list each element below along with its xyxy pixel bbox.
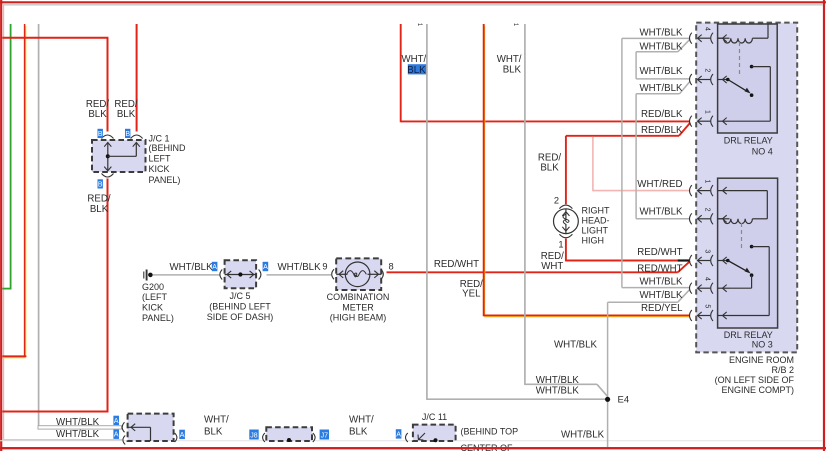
right headlight high lamp — [559, 205, 572, 209]
svg-text:PANEL): PANEL) — [142, 313, 174, 323]
svg-text:WHT/BLK: WHT/BLK — [56, 429, 100, 440]
svg-text:WHT/: WHT/ — [204, 414, 229, 425]
svg-text:A: A — [263, 264, 268, 271]
relay4 pin 2 — [690, 68, 730, 85]
tag J7 — [320, 430, 329, 440]
svg-text:DRL RELAY: DRL RELAY — [724, 330, 773, 340]
svg-text:A: A — [114, 432, 119, 439]
top rail wire (gray) — [3, 4, 823, 6]
tag A after box1 — [179, 430, 185, 439]
J/C 1 pin tags B — [98, 129, 103, 138]
relay3 switch — [726, 259, 730, 263]
svg-text:4: 4 — [704, 27, 711, 31]
relay4 pin 1 — [690, 110, 730, 127]
page border bottom (over text) — [0, 447, 826, 449]
relay3 coupling dash — [741, 223, 743, 251]
wire: gray feeder 2 (WHT/BLK) to E4 — [512, 23, 607, 397]
junction connector J/C 5 — [220, 270, 222, 280]
svg-text:WHT/BLK: WHT/BLK — [639, 66, 683, 77]
wire: red/yellow feeder to relay3 pin5 — [484, 26, 486, 315]
svg-text:J/C 11: J/C 11 — [422, 412, 447, 422]
wire: white wire along left border — [3, 5, 5, 440]
white wire to bottom J/C box1 (lower) — [3, 439, 122, 441]
wire: red feeder to J/C 1 right pin — [136, 24, 138, 132]
svg-text:1: 1 — [558, 240, 563, 250]
svg-text:WHT: WHT — [541, 261, 563, 272]
svg-text:5: 5 — [704, 304, 711, 308]
junction connector J/C 11 — [406, 433, 408, 442]
svg-text:G200: G200 — [142, 282, 164, 292]
svg-text:2: 2 — [704, 208, 711, 212]
wire: green feeder (left) — [10, 24, 12, 289]
svg-text:A: A — [396, 431, 401, 438]
svg-text:RED/WHT: RED/WHT — [637, 263, 682, 274]
relay3 pin 2 — [690, 208, 730, 225]
svg-text:8: 8 — [389, 261, 394, 271]
relay3 coil circuit — [730, 190, 768, 192]
svg-text:B: B — [98, 181, 103, 188]
svg-text:WHT/BLK: WHT/BLK — [169, 262, 213, 273]
svg-text:KICK: KICK — [149, 164, 170, 174]
svg-text:BLK: BLK — [204, 426, 223, 437]
black wire segment at relay3 pin3 — [678, 259, 690, 261]
svg-text:WHT/BLK: WHT/BLK — [56, 417, 100, 428]
svg-text:HEAD-: HEAD- — [582, 216, 610, 226]
node E4 — [605, 397, 610, 402]
bottom junction connector box1 — [122, 422, 124, 432]
wire: RED/BLK relay4 pin1 lower, to headlight pin 2 — [566, 135, 679, 137]
svg-text:J/C 5: J/C 5 — [229, 291, 250, 301]
svg-text:B: B — [125, 131, 130, 138]
wire RED/WHT meter pin8 to relay3 pin3 — [387, 271, 678, 273]
svg-text:KICK: KICK — [142, 303, 163, 313]
svg-text:9: 9 — [322, 261, 327, 271]
page border frame — [0, 1, 826, 3]
svg-text:CENTER OF: CENTER OF — [461, 443, 514, 451]
svg-text:4: 4 — [704, 277, 711, 281]
svg-text:ENGINE ROOM: ENGINE ROOM — [729, 355, 794, 365]
svg-text:NO 4: NO 4 — [752, 146, 773, 156]
svg-text:3: 3 — [704, 249, 711, 253]
wire W4: relay3 pin4 lower -> node E4 — [608, 301, 678, 303]
J/C 1 top-right pin connector — [131, 135, 143, 139]
white wire to bottom J/C box1 (upper) — [38, 426, 122, 429]
svg-text:LIGHT: LIGHT — [582, 226, 609, 236]
svg-text:WHT/BLK: WHT/BLK — [554, 339, 598, 350]
svg-text:WHT/BLK: WHT/BLK — [536, 375, 580, 386]
wire: red feeder to relay4 pin1 (upper RED/BLK) — [400, 24, 402, 122]
relay4 pin 4 — [690, 27, 730, 44]
wire WHT/BLK G200 to J/C 5 — [153, 274, 220, 276]
svg-text:J7: J7 — [321, 432, 329, 439]
svg-text:ENGINE COMPT): ENGINE COMPT) — [721, 385, 794, 395]
svg-text:NO 3: NO 3 — [752, 340, 773, 350]
svg-text:WHT/BLK: WHT/BLK — [561, 429, 605, 440]
tag J8 — [249, 430, 258, 440]
svg-text:WHT/BLK: WHT/BLK — [639, 28, 683, 39]
svg-text:WHT/BLK: WHT/BLK — [639, 83, 683, 94]
relay3 pin 5 — [690, 304, 730, 321]
svg-text:(BEHIND: (BEHIND — [149, 143, 187, 153]
J/C 5 tag A left — [212, 262, 218, 271]
tags A bottom-left — [113, 416, 119, 425]
svg-text:DRL RELAY: DRL RELAY — [724, 136, 773, 146]
relay3 pin 3 — [690, 249, 730, 266]
svg-text:J8: J8 — [250, 432, 258, 439]
combination meter (high beam) — [332, 269, 334, 279]
svg-text:(ON LEFT SIDE OF: (ON LEFT SIDE OF — [715, 375, 795, 385]
svg-text:BLK: BLK — [88, 109, 107, 120]
svg-text:RED/WHT: RED/WHT — [637, 247, 682, 258]
svg-text:YEL: YEL — [462, 288, 481, 299]
relay box DRL RELAY NO 4 — [718, 24, 778, 133]
relay3 pin 1 — [690, 179, 730, 196]
svg-text:A: A — [114, 418, 119, 425]
svg-text:1: 1 — [704, 179, 711, 183]
wire: red horizontal top-left to J/C 1 — [3, 37, 109, 39]
wire: red/yellow feeder (left) — [25, 26, 27, 357]
svg-text:2: 2 — [704, 68, 711, 72]
J/C 1 internal bus — [107, 144, 109, 171]
svg-text:BLK: BLK — [503, 64, 522, 75]
svg-text:WHT/: WHT/ — [349, 414, 374, 425]
svg-text:WHT/BLK: WHT/BLK — [639, 206, 683, 217]
svg-text:WHT/BLK: WHT/BLK — [536, 385, 580, 396]
wire: red from J/C 1 bottom exiting left — [107, 179, 109, 413]
svg-text:A: A — [180, 432, 185, 439]
svg-text:B: B — [98, 131, 103, 138]
bottom junction connector box2 — [263, 433, 265, 442]
svg-text:SIDE OF DASH): SIDE OF DASH) — [207, 312, 274, 322]
svg-text:BLK: BLK — [90, 204, 109, 215]
svg-text:J/C 1: J/C 1 — [149, 133, 170, 143]
bottom hairline — [0, 440, 823, 442]
wire: gray feeder 1 (WHT/BLK) down to E4 — [416, 23, 606, 400]
relay4 switch — [726, 78, 730, 82]
svg-text:1: 1 — [704, 110, 711, 114]
svg-text:BLK: BLK — [349, 426, 368, 437]
J/C 1 top-left pin connector — [102, 135, 114, 139]
svg-text:WHT/BLK: WHT/BLK — [639, 276, 683, 287]
wire RED/WHT headlight pin1 to relay3 pin3 — [565, 239, 567, 262]
wire WHT/RED (pink) to relay3 pin1 — [592, 137, 594, 191]
svg-text:RED/WHT: RED/WHT — [434, 259, 479, 270]
relay box DRL RELAY NO 3 — [718, 178, 778, 328]
svg-text:RED/BLK: RED/BLK — [641, 109, 683, 120]
svg-text:WHT/: WHT/ — [401, 54, 426, 65]
ground G200 — [143, 272, 145, 279]
svg-text:(BEHIND TOP: (BEHIND TOP — [461, 426, 519, 436]
svg-text:METER: METER — [342, 302, 374, 312]
relay4 coupling dash — [739, 42, 741, 76]
wire: gray feeder to bottom J/C (WHT/BLK) — [38, 24, 40, 427]
selected label BLK (blue highlight) — [408, 64, 427, 74]
svg-text:BLK: BLK — [117, 109, 136, 120]
wire W2: relay4 pin4 lower <-> relay4 pin2 upper — [636, 51, 678, 53]
wire W3: relay4 pin2 lower -> relay3 pin2 — [636, 93, 679, 95]
svg-text:COMBINATION: COMBINATION — [327, 292, 390, 302]
svg-text:WHT/BLK: WHT/BLK — [277, 262, 321, 273]
svg-text:BLK: BLK — [407, 65, 426, 76]
svg-text:LEFT: LEFT — [149, 154, 172, 164]
svg-text:RIGHT: RIGHT — [582, 206, 611, 216]
svg-text:R/B 2: R/B 2 — [771, 365, 794, 375]
J/C 5 tag A right — [263, 262, 269, 271]
svg-text:WHT/RED: WHT/RED — [637, 179, 682, 190]
svg-text:E4: E4 — [618, 394, 630, 405]
svg-text:A: A — [212, 264, 217, 271]
svg-text:(HIGH BEAM): (HIGH BEAM) — [330, 312, 387, 322]
wire WHT/BLK J/C 5 to meter — [267, 274, 332, 276]
wire W1: WHT/BLK relay4 pin4 upper -> relay3 pin4 upper — [622, 37, 690, 39]
junction connector J/C 1 — [92, 140, 146, 172]
svg-text:(BEHIND LEFT: (BEHIND LEFT — [209, 301, 271, 311]
relay4 coil — [718, 37, 724, 39]
svg-text:(LEFT: (LEFT — [142, 292, 168, 302]
svg-text:WHT/BLK: WHT/BLK — [639, 290, 683, 301]
relay3 pin 4 — [690, 277, 730, 294]
svg-text:RED/: RED/ — [87, 193, 110, 204]
engine room R/B 2 dashed box — [696, 23, 797, 353]
J/C 1 bottom pin connector — [102, 174, 114, 178]
svg-text:2: 2 — [554, 196, 559, 206]
svg-text:PANEL): PANEL) — [149, 175, 181, 185]
svg-text:WHT/BLK: WHT/BLK — [639, 41, 683, 52]
tag A before J/C 11 — [396, 429, 402, 438]
svg-text:BLK: BLK — [540, 163, 559, 174]
svg-text:HIGH: HIGH — [582, 236, 605, 246]
svg-text:RED/YEL: RED/YEL — [641, 303, 683, 314]
svg-text:RED/BLK: RED/BLK — [641, 125, 683, 136]
